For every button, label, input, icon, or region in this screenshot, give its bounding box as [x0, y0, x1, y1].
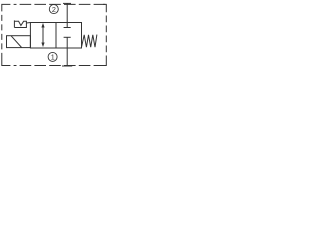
valve body position boxes — [30, 23, 81, 49]
manual override — [14, 20, 30, 27]
solenoid — [7, 36, 31, 48]
port 2 stub (top) — [63, 3, 71, 22]
port 1 stub (bottom) — [62, 48, 72, 66]
port 1 label — [48, 52, 57, 61]
port 2 label — [49, 5, 58, 14]
enclosure dashed boundary — [2, 4, 107, 65]
spring — [82, 35, 97, 48]
blocked ports (closed position) — [64, 23, 71, 49]
svg-text:1: 1 — [51, 53, 55, 62]
svg-text:2: 2 — [52, 5, 56, 14]
flow path arrow (open position) — [41, 23, 44, 47]
